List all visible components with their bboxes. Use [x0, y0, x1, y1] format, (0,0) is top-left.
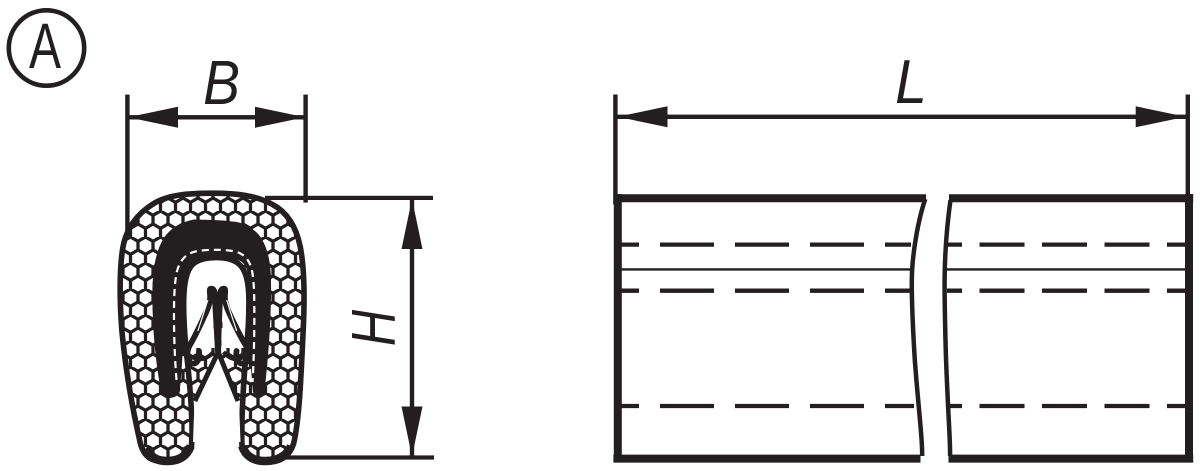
hidden dashed line bottom right — [950, 404, 1187, 408]
hidden dashed line bottom left — [619, 404, 914, 408]
dimension L: right extension line — [1186, 95, 1190, 205]
dimension H: dimension line — [410, 198, 414, 457]
bottom inner honeycomb wedge — [184, 348, 249, 405]
rungs between lips — [213, 303, 223, 309]
svg-text:L: L — [895, 47, 927, 117]
mouth V opening (white) — [193, 350, 241, 442]
dimension L: right arrowhead — [1136, 106, 1186, 127]
hidden dashed line top1 left — [619, 242, 911, 246]
dimension B: left extension line — [125, 95, 129, 246]
profile cross-section: honeycomb fill — [120, 193, 304, 462]
wedge top edge arcs — [185, 351, 249, 359]
top edge left segment — [613, 194, 926, 462]
dimension H: bottom extension line — [279, 455, 434, 459]
dimension H: bottom arrowhead — [402, 407, 423, 457]
right lip (hook, diagonal, apex, centre branch) — [218, 289, 248, 364]
view label circle A — [9, 10, 84, 85]
svg-text:A: A — [29, 10, 61, 81]
dimension L: left arrowhead — [618, 106, 668, 127]
strip body: left segment outline — [613, 194, 1193, 462]
dimension L: dimension line — [615, 115, 1187, 119]
profile cross-section: white base — [120, 193, 304, 462]
break: right wavy line — [945, 200, 951, 456]
thin solid line left — [620, 268, 912, 270]
gripping lips (M shape) — [187, 289, 248, 364]
metal core U band (solid black) — [152, 220, 271, 398]
svg-text:B: B — [203, 49, 240, 118]
dimension L: left extension line — [613, 95, 617, 205]
hidden dashed line top2 left — [619, 289, 912, 293]
svg-text:H: H — [339, 310, 408, 346]
dimension B: left arrowhead — [128, 107, 178, 128]
left lip (hook, diagonal, apex, centre branch) — [187, 289, 218, 364]
thin solid line right — [945, 268, 1187, 270]
feet bottom thick rims — [147, 446, 191, 461]
dimension H: top arrowhead — [402, 199, 423, 249]
profile cross-section: outer outline stroke — [120, 193, 304, 462]
dimension B: dimension line — [127, 115, 305, 119]
dimension B: right extension line — [303, 95, 307, 203]
break: left wavy line — [912, 199, 926, 456]
hidden dashed line inside core (white) — [174, 250, 254, 382]
mouth V edges — [195, 352, 238, 401]
hidden dashed line top2 right — [947, 289, 1186, 293]
hidden dashed line top1 right — [947, 242, 1186, 246]
white slits inside lips — [198, 300, 237, 331]
dimension H: top extension line — [265, 196, 433, 200]
dimension B: right arrowhead — [255, 107, 305, 128]
right segment edges — [949, 194, 1194, 462]
